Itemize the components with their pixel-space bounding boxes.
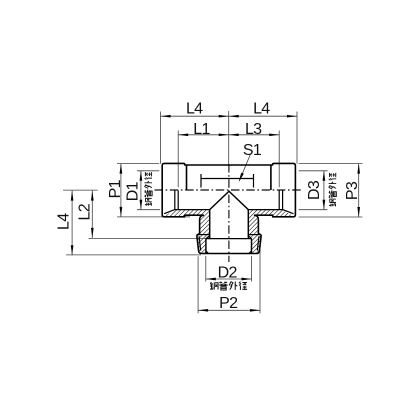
svg-text:S1: S1 — [243, 142, 262, 159]
svg-text:L4: L4 — [253, 101, 270, 118]
svg-text:P3: P3 — [344, 181, 361, 200]
svg-text:D1: D1 — [124, 181, 141, 201]
svg-text:L3: L3 — [245, 121, 262, 138]
svg-text:D2: D2 — [218, 264, 238, 281]
svg-text:L4: L4 — [186, 101, 203, 118]
svg-text:L2: L2 — [77, 203, 94, 220]
svg-text:L1: L1 — [193, 121, 210, 138]
svg-text:L4: L4 — [56, 213, 73, 230]
svg-text:D3: D3 — [306, 180, 323, 200]
svg-text:P1: P1 — [107, 179, 124, 198]
svg-text:P2: P2 — [219, 295, 238, 312]
